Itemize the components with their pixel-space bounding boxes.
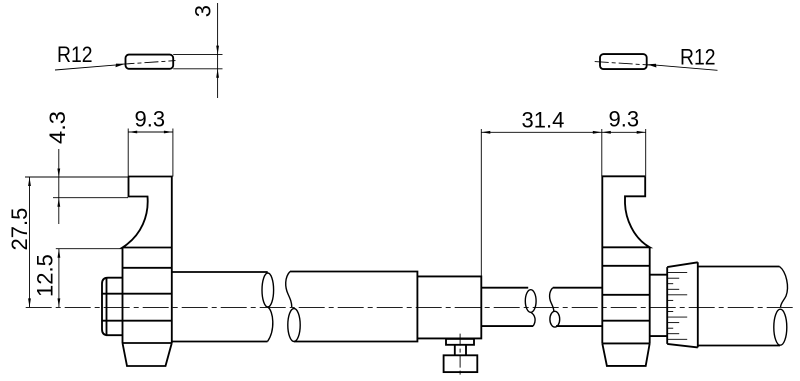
extension line jaw top (for 27.5 and 4.3) — [25, 176, 129, 178]
tube segment 2 break (S-break) — [286, 272, 292, 308]
leader R12 left — [55, 65, 121, 70]
left jaw band lines — [123, 267, 172, 269]
knurled cone — [667, 262, 698, 347]
connecting rod right — [650, 274, 668, 276]
right jaw outline — [602, 176, 649, 343]
spindle rod piece 1 — [481, 287, 528, 289]
detail pill right (R12 contact tip) — [600, 54, 647, 69]
dimension 9.3 left extension lines — [127, 129, 129, 177]
dimension 4.3 extension line (step) — [53, 197, 128, 199]
dimension 3 extension lines — [173, 54, 222, 56]
dimension 4.3 line and arrows — [58, 149, 60, 224]
svg-text:R12: R12 — [57, 42, 93, 67]
lock screw collar — [446, 339, 474, 345]
tube segment 2 — [290, 272, 417, 342]
dimension 31.4 / 9.3 shared extension — [601, 129, 603, 176]
spindle rod break 2 — [550, 288, 554, 312]
right jaw band lines — [602, 265, 649, 267]
dimension 9.3 right extension — [645, 129, 647, 176]
svg-text:12.5: 12.5 — [33, 254, 58, 297]
svg-text:31.4: 31.4 — [522, 108, 565, 133]
dimension 31.4 extension line left — [480, 129, 482, 276]
extension line notch (for 12.5) — [56, 248, 123, 250]
detail pill left centerline — [121, 61, 176, 65]
spindle rod piece 2 — [553, 287, 603, 289]
lock screw centerline — [459, 334, 461, 377]
leader R12 right — [651, 65, 718, 71]
dimension 31.4 line — [481, 131, 602, 133]
left jaw foot — [123, 343, 172, 366]
svg-text:9.3: 9.3 — [609, 107, 640, 132]
dimension 27.5 line and arrows — [29, 177, 31, 307]
tube segment 1 — [172, 271, 268, 273]
svg-text:9.3: 9.3 — [135, 107, 166, 132]
svg-text:4.3: 4.3 — [45, 111, 70, 144]
dimension 12.5 line and arrows — [58, 249, 60, 308]
main block with lock screw — [417, 276, 481, 338]
right jaw foot — [602, 343, 649, 366]
svg-text:27.5: 27.5 — [7, 208, 32, 251]
thimble end break — [780, 267, 788, 308]
tube segment 1 break (S-break) — [262, 273, 274, 307]
dimension 9.3 left line — [128, 131, 173, 133]
lock screw stem — [455, 345, 466, 356]
knurl ticks — [667, 273, 687, 340]
detail pill right centerline — [595, 62, 654, 66]
main horizontal centerline — [26, 306, 795, 308]
thimble cylinder — [698, 266, 780, 268]
lock screw knob — [444, 355, 478, 372]
left anvil cap face line — [106, 278, 108, 336]
detail pill left (R12 contact tip) — [126, 55, 174, 69]
left jaw outline — [123, 177, 172, 344]
dimension 9.3 right line — [602, 131, 646, 133]
svg-text:3: 3 — [191, 5, 216, 17]
dimension 3 line and arrows — [217, 3, 219, 98]
spindle rod break 1 — [525, 290, 536, 313]
svg-text:R12: R12 — [680, 45, 716, 70]
left anvil cap — [102, 278, 123, 336]
